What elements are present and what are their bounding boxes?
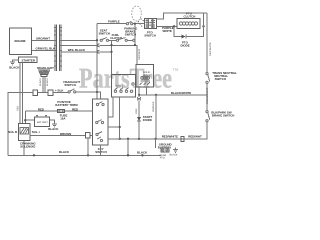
svg-text:BATTERY: BATTERY bbox=[37, 121, 48, 124]
svg-text:ORANGE: ORANGE bbox=[152, 101, 155, 112]
svg-text:WHITE: WHITE bbox=[163, 29, 172, 33]
engine box bbox=[10, 28, 32, 55]
relay bbox=[136, 65, 153, 87]
svg-text:RED/WHT: RED/WHT bbox=[188, 134, 202, 138]
svg-text:RED: RED bbox=[72, 108, 78, 112]
svg-text:RED/WHITE: RED/WHITE bbox=[209, 42, 212, 56]
svg-text:SWITCH: SWITCH bbox=[215, 77, 226, 81]
vertical from switches to module bbox=[110, 40, 112, 74]
ground cluster (battery ground eyelet) bbox=[158, 142, 178, 159]
svg-text:GRN/YEL BLK: GRN/YEL BLK bbox=[36, 47, 56, 51]
node clutch right bbox=[202, 25, 204, 27]
svg-text:ENGINE: ENGINE bbox=[15, 39, 26, 43]
dashed oval (key inset) bbox=[132, 6, 145, 27]
WATERMARK PartsTree bbox=[79, 63, 179, 94]
battery ground bbox=[48, 120, 59, 131]
trans neutral switch bbox=[206, 71, 237, 84]
svg-text:STARTER: STARTER bbox=[22, 58, 36, 62]
key box to ground drop link bbox=[108, 126, 120, 128]
parking brake switch bbox=[124, 21, 138, 36]
svg-text:RED/WHT: RED/WHT bbox=[138, 48, 141, 60]
headlight bbox=[37, 66, 54, 93]
node: black wire junction bbox=[96, 91, 98, 93]
node clutch left bbox=[173, 25, 175, 27]
node: seat wire junction bbox=[96, 39, 98, 41]
svg-text:BLACK: BLACK bbox=[137, 150, 148, 154]
svg-text:BLACK: BLACK bbox=[46, 78, 49, 86]
svg-text:DIODE: DIODE bbox=[181, 43, 190, 47]
interlock module bbox=[112, 75, 136, 98]
pto/brake interlock switch bbox=[109, 33, 135, 41]
clutch wire from block bbox=[157, 26, 178, 33]
svg-text:BLACK: BLACK bbox=[9, 65, 20, 69]
svg-text:+ BLK: + BLK bbox=[55, 89, 64, 93]
svg-text:SOL +: SOL + bbox=[32, 130, 41, 134]
svg-text:TM: TM bbox=[173, 67, 179, 72]
svg-text:RED/WHITE: RED/WHITE bbox=[162, 134, 178, 138]
headlight switch bbox=[63, 80, 80, 93]
svg-text:SOLENOID: SOLENOID bbox=[20, 145, 35, 149]
relay pins to blk/wht wire bbox=[139, 87, 147, 95]
starter cables bbox=[16, 63, 22, 124]
svg-text:BLACK: BLACK bbox=[48, 127, 59, 131]
svg-text:BRAKE SWITCH: BRAKE SWITCH bbox=[212, 114, 234, 118]
seat switch bbox=[99, 28, 110, 41]
starter box bbox=[18, 57, 37, 63]
svg-text:BROWN: BROWN bbox=[60, 132, 71, 136]
svg-text:SWITCH: SWITCH bbox=[144, 34, 155, 38]
wire connector to seat-switch node bbox=[61, 39, 97, 41]
svg-text:15A: 15A bbox=[60, 116, 66, 120]
node on purple wire bbox=[134, 23, 136, 25]
svg-text:BLACK: BLACK bbox=[59, 150, 70, 154]
harness connector strip bbox=[54, 24, 62, 71]
svg-text:DIODE: DIODE bbox=[143, 118, 152, 122]
bottom rail bbox=[8, 138, 161, 157]
key switch box bbox=[93, 99, 109, 154]
black ground wire (left frame) bbox=[8, 89, 101, 156]
ground cluster drop bbox=[155, 95, 157, 148]
svg-text:BLACK/WHITE: BLACK/WHITE bbox=[171, 91, 191, 95]
wire engine to connector (top) bbox=[32, 37, 55, 41]
ground drop to bottom rail bbox=[127, 139, 129, 156]
svg-text:SAFETY: SAFETY bbox=[116, 85, 126, 88]
svg-text:ORG/WHT: ORG/WHT bbox=[36, 37, 50, 41]
svg-text:WHL BLACK: WHL BLACK bbox=[68, 48, 86, 52]
svg-text:PTO: PTO bbox=[160, 156, 165, 159]
svg-text:PURPLE: PURPLE bbox=[108, 19, 120, 23]
svg-text:CLUTCH: CLUTCH bbox=[184, 14, 196, 18]
svg-text:SWITCH: SWITCH bbox=[95, 150, 106, 154]
svg-text:SWITCH: SWITCH bbox=[99, 32, 110, 36]
svg-text:BLACK: BLACK bbox=[39, 78, 42, 86]
blk/wht wire to right rail bbox=[138, 91, 207, 96]
svg-text:RED: RED bbox=[38, 108, 44, 112]
relay feed corner bbox=[134, 44, 141, 65]
wire connector WHL BLACK with hooks bbox=[61, 48, 111, 53]
key box to module link bbox=[108, 97, 113, 117]
svg-text:BLACK: BLACK bbox=[170, 154, 178, 157]
svg-text:SWITCH: SWITCH bbox=[64, 83, 75, 87]
headlight plug connectors bbox=[33, 90, 53, 96]
top loop wire from block to right rail bbox=[157, 13, 208, 19]
fuse bbox=[58, 109, 68, 120]
red wire from battery to key switch bbox=[25, 100, 92, 112]
module drop wire bbox=[119, 97, 121, 139]
svg-text:ORANGE/WHT: ORANGE/WHT bbox=[206, 87, 209, 104]
wire connector to relay (mid) with inline connector hooks bbox=[61, 44, 137, 47]
PTO clutch bbox=[177, 11, 204, 28]
start diode branch bbox=[135, 95, 152, 139]
battery bbox=[35, 116, 50, 127]
svg-text:ORG: ORG bbox=[135, 108, 138, 114]
right rail bbox=[156, 13, 212, 139]
svg-text:RED: RED bbox=[16, 106, 19, 111]
brown wire to key switch bbox=[30, 132, 93, 138]
rear pto brake switch bbox=[206, 110, 234, 121]
wire node down to relay feed bbox=[134, 24, 136, 45]
PTO switch block bbox=[144, 18, 156, 37]
purple top wire bbox=[97, 19, 145, 23]
svg-text:BATTERY TERM: BATTERY TERM bbox=[55, 103, 78, 107]
ignition output wire bbox=[108, 134, 207, 141]
cranking solenoid bbox=[8, 124, 40, 156]
wire engine to connector (bottom) bbox=[32, 47, 56, 51]
vertical purple feed x97 bbox=[96, 24, 98, 99]
PTO diode loop bbox=[174, 26, 204, 47]
ground (starter) bbox=[9, 60, 20, 70]
svg-text:SOL B: SOL B bbox=[8, 130, 17, 134]
battery feed bbox=[24, 111, 34, 124]
